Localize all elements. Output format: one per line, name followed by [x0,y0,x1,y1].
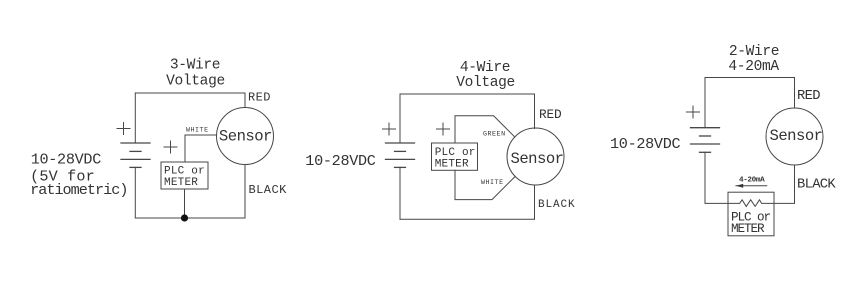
svg-text:10-28VDC: 10-28VDC [31,150,102,168]
PLC or METER box D1 [161,162,208,189]
wire: top rail D1 [135,92,245,94]
battery B2 plus sign [383,123,396,135]
junction dot D1 [181,214,188,221]
wire: sensor bottom to bottom rail (BLACK) [244,165,246,219]
svg-text:BLACK: BLACK [797,176,836,192]
svg-text:ratiometric): ratiometric) [30,181,127,199]
wire: meter top to sensor upper-left (GREEN) [455,116,515,143]
svg-text:4-Wire: 4-Wire [460,60,510,76]
svg-text:2-Wire: 2-Wire [729,44,779,60]
svg-text:4-20mA: 4-20mA [728,59,779,75]
battery B3 [691,128,720,153]
battery B1 plus sign [117,123,130,135]
svg-text:Voltage: Voltage [456,75,515,91]
wire: top rail down to sensor top (RED) [794,78,796,109]
svg-text:WHITE: WHITE [186,125,209,133]
svg-text:Voltage: Voltage [166,74,225,90]
svg-text:PLC or: PLC or [435,147,476,159]
PLC or METER box D3 [728,192,774,236]
wire: battery B2 top to top rail [399,94,401,143]
wire: bottom rail D1 [135,217,245,219]
svg-text:10-28VDC: 10-28VDC [305,152,376,170]
svg-text:4-20mA: 4-20mA [739,176,765,184]
wire: sensor bottom down to meter loop (BLACK) [794,165,796,203]
wire: bottom rail D2 [400,218,535,220]
svg-text:METER: METER [164,177,198,189]
resistor R1 inside meter [728,200,774,207]
wire: battery B1 bottom to bottom rail [134,167,136,218]
wire: top rail down to sensor top (RED) [244,93,246,108]
current direction arrow [736,184,767,188]
svg-text:GREEN: GREEN [483,130,506,138]
wire: top rail D2 [400,93,535,95]
wire: top rail D3 [705,77,795,79]
svg-text:WHITE: WHITE [481,178,504,186]
battery B1 [121,143,150,167]
svg-text:10-28VDC: 10-28VDC [610,135,681,153]
svg-text:PLC or: PLC or [164,166,205,178]
sensor U1 [217,108,274,165]
wire: battery B2 bottom to bottom rail [399,167,401,219]
wire: sensor left to meter (WHITE) [185,135,217,162]
svg-text:METER: METER [731,221,765,236]
title: 2-Wire 4-20mA [728,44,779,75]
svg-text:Sensor: Sensor [770,127,823,145]
title: 3-Wire Voltage [166,58,225,90]
svg-text:RED: RED [797,88,820,104]
title: 4-Wire Voltage [456,60,515,91]
svg-text:3-Wire: 3-Wire [170,58,220,74]
PLC or METER box D2 [432,143,478,170]
plus sign at meter D1 [164,141,177,153]
svg-text:METER: METER [435,159,469,171]
battery B2 [386,143,415,167]
wire: top rail down to sensor top (RED) [534,94,536,129]
wire: battery B3 bottom to meter box [705,152,728,203]
wire: battery B3 top to top rail [704,78,706,128]
label 10-28VDC (5V for ratiometric) [30,150,127,199]
svg-text:Sensor: Sensor [511,150,564,168]
wire: battery B1 top to top rail [134,93,136,143]
sensor U3 [766,108,823,165]
wire: meter bottom to bottom rail [184,189,186,218]
svg-text:RED: RED [248,91,271,105]
battery B3 plus sign [687,106,700,118]
svg-text:RED: RED [539,107,562,122]
svg-text:BLACK: BLACK [249,183,288,197]
svg-text:Sensor: Sensor [219,127,272,145]
wire: meter bottom to sensor lower-left (WHITE) [455,170,515,199]
wire: meter right side to sensor bottom [774,202,795,204]
plus sign at meter D2 [437,123,450,135]
sensor U2 [507,128,564,185]
svg-text:BLACK: BLACK [538,199,576,211]
wire: sensor bottom to bottom rail (BLACK) [534,185,536,219]
